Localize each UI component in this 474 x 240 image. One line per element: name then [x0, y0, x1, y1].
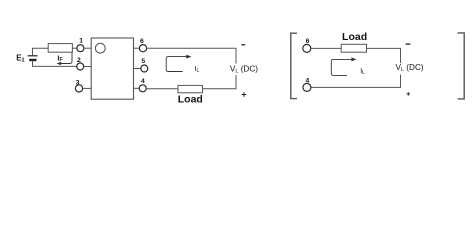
svg-text:5: 5	[141, 58, 145, 65]
svg-text:Load: Load	[178, 93, 203, 105]
wire resistor to pin1	[72, 47, 77, 49]
pin-1 indicator dot	[95, 43, 105, 53]
svg-text:IL: IL	[360, 68, 365, 76]
svg-text:Load: Load	[342, 31, 367, 43]
current loop arrow IL (left)	[166, 57, 187, 72]
svg-text:VL (DC): VL (DC)	[396, 63, 424, 73]
svg-text:6: 6	[140, 38, 144, 45]
minus sign (left output)	[241, 44, 245, 46]
minus sign (equiv)	[406, 43, 411, 45]
pin 2 terminal	[77, 63, 84, 70]
svg-text:IL: IL	[195, 66, 200, 74]
battery E1	[28, 56, 38, 60]
pin 6 terminal	[139, 45, 146, 52]
resistor (series input)	[48, 44, 72, 53]
equivalent-output left bracket	[291, 33, 297, 98]
plus sign (equiv)	[407, 92, 410, 95]
wire pin6 stub	[134, 47, 140, 49]
pin 3 terminal	[75, 85, 82, 92]
wire load to output node (equiv)	[367, 48, 401, 63]
plus sign (left output)	[242, 92, 247, 97]
load resistor (equiv)	[341, 44, 366, 52]
pin 4 terminal (equiv)	[303, 83, 311, 91]
wire pin6 to load (equiv)	[311, 47, 341, 49]
wire load to pin4	[146, 88, 178, 90]
pin 1 terminal	[77, 45, 84, 52]
wire pin2 stub	[84, 66, 92, 68]
wire output vertical lower (equiv)	[311, 75, 401, 88]
pin 5 terminal	[141, 65, 148, 72]
wire pin6 to output + node	[147, 48, 236, 63]
wire battery- to pin2	[33, 61, 77, 67]
equivalent-output right bracket	[458, 33, 465, 99]
current loop arrow IL (equiv)	[331, 59, 352, 75]
svg-text:1: 1	[79, 38, 83, 45]
pin 6 terminal (equiv)	[303, 44, 311, 52]
current arrow IF	[58, 52, 73, 63]
wire pin1 stub	[84, 47, 91, 49]
svg-text:E1: E1	[16, 53, 24, 63]
wire pin4 stub	[134, 87, 140, 89]
wire pin3 stub	[83, 87, 92, 89]
wire pin5 stub	[134, 68, 141, 70]
optocoupler U1 body	[91, 38, 133, 99]
svg-text:VL (DC): VL (DC)	[230, 65, 258, 75]
svg-text:4: 4	[141, 78, 145, 85]
wire battery+ to resistor	[33, 48, 49, 55]
load resistor (left circuit)	[178, 85, 203, 92]
wire output right vertical lower	[203, 75, 237, 89]
svg-text:IF: IF	[57, 54, 62, 64]
pin 4 terminal	[139, 85, 146, 92]
